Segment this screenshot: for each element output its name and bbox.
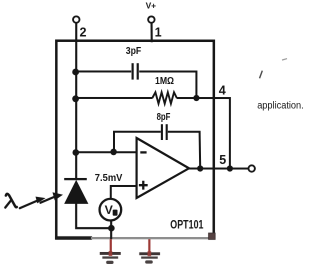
svg-text:1MΩ: 1MΩ [155, 76, 174, 87]
wire 8pF branch [114, 132, 200, 169]
capacitor C1 3pF [126, 46, 141, 79]
node junction 1M/pin2 bus [72, 95, 79, 102]
terminal pin 2 [73, 16, 79, 22]
IC outline bottom edge (black segment) [55, 236, 92, 240]
svg-text:7.5mV: 7.5mV [95, 173, 123, 184]
op-amp U1 [137, 138, 189, 198]
node junction 8pF corner on output [197, 165, 203, 171]
svg-text:1: 1 [155, 26, 162, 40]
scan artifact slash [260, 71, 263, 79]
terminal output [248, 165, 254, 171]
wire VB bottom to common rail [110, 220, 112, 239]
wire output pin 5 [189, 168, 248, 170]
wire photodiode anode to common [76, 203, 111, 228]
wire non-inverting input from VB [111, 186, 137, 198]
node junction 8pF/inverting [110, 149, 117, 156]
svg-text:8pF: 8pF [157, 112, 171, 123]
ground G2 [139, 239, 160, 263]
node junction 3pF corner on 1M wire [193, 95, 199, 101]
scan artifact dash [282, 59, 287, 60]
node junction 3pF/pin2 bus [72, 69, 79, 76]
svg-text:V: V [105, 203, 114, 217]
IC outline bottom edge (gray segment) [91, 237, 209, 239]
wire inverting input [76, 151, 137, 153]
svg-text:3pF: 3pF [126, 46, 141, 57]
resistor R1 1M [152, 76, 177, 104]
photodiode D1 [64, 179, 87, 203]
capacitor C2 8pF [157, 112, 171, 140]
svg-text:5: 5 [219, 153, 226, 167]
ground G1 [100, 239, 121, 264]
wire 1M resistor branch with pin 4 loop [76, 98, 230, 169]
IC outline OPT101 (left, top, right edges) [56, 41, 214, 239]
wire pin1 to box [150, 23, 152, 42]
svg-text:4: 4 [219, 84, 226, 98]
node junction diode/VB common [108, 225, 115, 232]
light arrows [20, 193, 62, 208]
svg-text:application.: application. [257, 100, 304, 111]
voltage source VB [100, 199, 122, 221]
terminal pin 1 V+ [148, 16, 154, 22]
wire pin2 vertical main bus [75, 23, 77, 179]
node junction pin4 loop on output [227, 165, 233, 171]
lambda light label [5, 194, 17, 208]
pin 3 pad square [209, 233, 216, 239]
svg-text:V+: V+ [146, 1, 156, 11]
node junction inverting/pin2 bus [72, 149, 79, 156]
svg-text:OPT101: OPT101 [170, 219, 204, 232]
wire 3pF branch [76, 71, 196, 98]
svg-text:2: 2 [80, 26, 87, 40]
